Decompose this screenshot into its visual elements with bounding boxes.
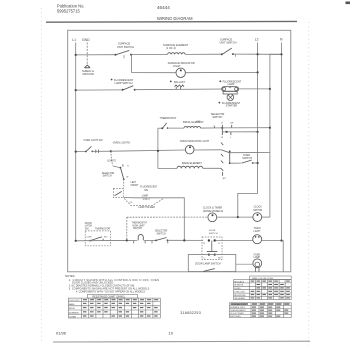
wire bottom line L1 to door box [76, 240, 86, 242]
ground symbol [84, 65, 90, 68]
svg-text:L1: L1 [72, 38, 76, 42]
wire box to thermal bump [85, 239, 137, 241]
wire selector to terminals [167, 239, 203, 241]
junction dot tie [157, 150, 159, 152]
ballast [175, 85, 184, 90]
svg-text:10: 10 [169, 330, 174, 335]
svg-text:BROIL ELEMENT: BROIL ELEMENT [183, 120, 204, 124]
svg-text:SWITCH: SWITCH [213, 116, 223, 119]
header rule [46, 20, 297, 23]
clock motor [253, 213, 262, 222]
broil element coil [184, 126, 201, 128]
oven light label [254, 227, 262, 233]
surface element coil [168, 53, 186, 55]
left table header cell [87, 294, 137, 298]
svg-text:SWITCH: SWITCH [157, 233, 166, 235]
svg-text:SWITCH: SWITCH [209, 233, 218, 235]
right lower table labels [230, 303, 247, 318]
svg-text:BAKE ELEMENT: BAKE ELEMENT [182, 161, 202, 165]
wire contact to N branch [230, 152, 270, 154]
footer rule [53, 340, 310, 343]
left table cell marks [83, 299, 158, 316]
svg-text:HIGH LIMIT: HIGH LIMIT [132, 225, 145, 227]
selector switch bottom [155, 238, 168, 242]
wire GND stem [86, 43, 88, 66]
svg-text:LIGHT: LIGHT [173, 64, 181, 68]
svg-text:CLOCK TIMER: CLOCK TIMER [230, 313, 244, 315]
svg-text:WIRING DIAGRAM: WIRING DIAGRAM [157, 16, 193, 21]
wire indicator to L2 [185, 71, 257, 73]
thermal limit labels [132, 222, 148, 231]
wire lamp holder vertical [183, 197, 185, 240]
junction dot L1 fluorescent [75, 89, 77, 91]
selector sw label bottom [155, 231, 168, 236]
junction dot L2 top [257, 53, 259, 55]
right lower table header marks [231, 303, 290, 304]
oven lights branch drop [111, 151, 113, 165]
svg-text:GROUND: GROUND [82, 72, 94, 76]
junction dot L1 oven light [75, 151, 77, 153]
fluorescent lamp [222, 86, 239, 91]
svg-text:LAMP: LAMP [228, 83, 235, 86]
wire oven light to N [262, 239, 284, 241]
wire selector to N branch [222, 127, 270, 129]
svg-text:1 OF 2: 1 OF 2 [143, 199, 151, 201]
terminal dots on lamp box [208, 254, 216, 256]
door lamp switch box [188, 255, 236, 272]
junction square selector [226, 131, 228, 133]
oven light [253, 235, 262, 244]
svg-text:UNIT SWITCH: UNIT SWITCH [220, 41, 237, 45]
right upper table labels [234, 280, 246, 300]
svg-text:(SOME MODELS): (SOME MODELS) [203, 210, 223, 213]
fluorescent starter [227, 94, 234, 101]
svg-text:LAMP SWITCH: LAMP SWITCH [115, 81, 133, 85]
svg-text:TERMINAL CODE: TERMINAL CODE [230, 303, 247, 306]
wire plug to junction [92, 150, 111, 152]
wire N branch rail [270, 54, 282, 217]
wire junction to indicator [111, 150, 185, 151]
svg-text:FLUORESCENT: FLUORESCENT [140, 187, 158, 189]
junction dot N bottom [280, 239, 282, 241]
junction dot L1 top [75, 54, 77, 56]
wire switch 2 to L2 [233, 53, 282, 55]
svg-text:THERMOSTAT: THERMOSTAT [132, 222, 148, 225]
svg-text:BAKE: BAKE [69, 303, 75, 306]
svg-text:316852253: 316852253 [180, 311, 201, 315]
svg-text:(1 OF 4): (1 OF 4) [166, 46, 176, 50]
right upper table header cell [250, 276, 292, 280]
wire lamp to N branch [240, 88, 270, 90]
wire top bus L1 to surface switch [76, 54, 116, 56]
oven switch [230, 160, 258, 164]
junction dot lamp holder vertical [183, 239, 185, 241]
wire bake line [158, 167, 177, 169]
junction dot selector upper [221, 127, 223, 129]
door latch switch labels [85, 223, 111, 231]
junction dot L2 drop [237, 216, 239, 218]
thermostat switch [158, 123, 168, 129]
svg-text:SURFACE INDICATOR: SURFACE INDICATOR [168, 61, 195, 65]
schematic frame [68, 30, 291, 271]
svg-text:W: W [126, 177, 128, 179]
junction dot L1 bottom [75, 240, 77, 242]
svg-text:LAMP HOLDER: LAMP HOLDER [138, 206, 155, 209]
wire broil-bake tie [157, 128, 159, 168]
surface element label [163, 43, 189, 50]
svg-text:4. COMPONENTS WITH * DO NOT AP: 4. COMPONENTS WITH * DO NOT APPEAR ON AL… [76, 290, 145, 293]
wire terminals to oven light [216, 239, 253, 241]
rotary switch label [102, 173, 115, 178]
corner scan tick [346, 2, 350, 5]
door switch terminal label [209, 230, 218, 235]
wire selector contact jog [221, 150, 229, 153]
svg-text:CLEAN: CLEAN [69, 316, 76, 319]
wire selector second line [222, 131, 257, 133]
svg-text:GND: GND [82, 38, 90, 42]
fluorescent lamp switch label [111, 78, 134, 85]
wire indicator to selector contact [194, 149, 222, 151]
selector contact ticks lower [222, 128, 231, 135]
right upper table marks [251, 281, 290, 299]
page right perforation mark [308, 22, 310, 346]
wire indicator line left [132, 72, 176, 74]
surface indicator light [176, 68, 185, 77]
wire oven lamp drop [282, 241, 284, 272]
svg-text:L2: L2 [255, 38, 259, 42]
wire bake coil to contact [203, 167, 222, 169]
lights selector switch [113, 164, 129, 180]
wire lamp loop lower [124, 198, 163, 205]
selector tick labels upper [221, 123, 234, 125]
junction dot oven switch L2 [257, 162, 259, 164]
fluorescent lamp label [219, 80, 241, 86]
wire N rail [281, 43, 283, 241]
svg-text:GN-GREEN: GN-GREEN [234, 298, 245, 300]
wire thermostat to broil element [168, 127, 185, 129]
connector plug [96, 150, 99, 153]
oven light switch [85, 146, 93, 152]
wire fluorescent line L1 to switch [76, 89, 123, 91]
junction dot selector L2 [257, 131, 259, 133]
terminal dot left [208, 239, 210, 241]
svg-text:01/96: 01/96 [56, 330, 67, 335]
svg-text:THERMOSTAT: THERMOSTAT [160, 117, 177, 120]
junction dot indicator L2 [257, 71, 259, 73]
svg-text:DOOR LAMP SWITCH: DOOR LAMP SWITCH [195, 262, 221, 265]
clock and timer label [203, 207, 223, 213]
left table row labels [69, 300, 80, 319]
svg-text:LEFT: LEFT [131, 182, 137, 184]
svg-text:COIL VOLT: COIL VOLT [69, 300, 80, 302]
svg-text:W-WHITE: W-WHITE [234, 285, 244, 287]
page left perforation mark [40, 8, 42, 342]
ballast label [170, 81, 186, 85]
left table grid [68, 298, 160, 318]
svg-text:BROIL: BROIL [69, 308, 76, 310]
svg-text:Y-YELLOW: Y-YELLOW [234, 292, 244, 294]
oven switch label [242, 154, 252, 160]
svg-text:SELECTOR: SELECTOR [102, 173, 115, 175]
svg-text:MOTOR: MOTOR [253, 209, 262, 212]
svg-text:THERMOSTAT: THERMOSTAT [95, 227, 111, 230]
svg-text:46444: 46444 [157, 5, 170, 10]
wire lights drop lower [123, 179, 125, 188]
svg-text:LIGHT: LIGHT [254, 230, 262, 233]
svg-text:LATCH: LATCH [85, 225, 93, 228]
surface indicator label [168, 61, 195, 68]
svg-text:OFF: OFF [196, 121, 201, 123]
surface unit switch 1 [115, 50, 133, 58]
junction dot N top [280, 53, 282, 55]
door latch switch box [85, 231, 110, 246]
wire L1 rail [75, 43, 77, 241]
bake element coil [177, 166, 203, 168]
svg-text:SWITCH: SWITCH [133, 228, 142, 230]
oven lamp [253, 259, 262, 272]
svg-text:UNIT SWITCH: UNIT SWITCH [117, 45, 134, 49]
surface unit switch 2 label [220, 37, 237, 44]
surface unit switch 2 [221, 48, 236, 57]
svg-text:R-RED: R-RED [234, 288, 241, 290]
svg-text:SURFACE: SURFACE [69, 311, 79, 314]
wire oven light line L1 to switch [76, 151, 86, 153]
fluorescent lamp switch [122, 86, 136, 91]
lamp switch box labels [131, 182, 158, 201]
oven lamp label [254, 253, 261, 259]
svg-text:SWITCHES: SWITCHES [230, 316, 241, 318]
wire L2 rail [238, 43, 258, 218]
clock motor label [253, 206, 262, 212]
wire motor to N branch [262, 216, 270, 218]
surface unit switch 1 label [117, 42, 134, 49]
svg-text:BK-BLACK: BK-BLACK [234, 280, 245, 283]
svg-text:LAMP: LAMP [142, 194, 149, 197]
selector contact ticks upper [222, 125, 231, 128]
svg-text:OVEN ELEMENT: OVEN ELEMENT [230, 310, 246, 312]
selector tick labels lower [221, 137, 233, 139]
wire bump to selector blade [144, 239, 156, 241]
terminal ticks bottom line [134, 241, 168, 244]
ground label [82, 69, 94, 76]
selector switch label [211, 113, 225, 119]
right lower table grid [229, 303, 291, 318]
junction dot oven lights [110, 150, 112, 152]
thermal limit switch [138, 235, 143, 241]
svg-text:COM: COM [86, 236, 91, 238]
svg-text:NO: NO [218, 257, 221, 259]
svg-text:-OVEN LIGHTS-: -OVEN LIGHTS- [112, 141, 131, 144]
svg-text:NOTES:: NOTES: [65, 274, 75, 278]
svg-text:FRONT: FRONT [131, 185, 140, 187]
wire element to surface switch 2 [185, 53, 221, 55]
header publication text [57, 4, 85, 14]
wire motor to L2 drop [217, 216, 253, 218]
svg-text:BALLAST: BALLAST [174, 81, 185, 84]
svg-text:NO: NO [104, 236, 108, 238]
fluorescent starter label [219, 102, 241, 108]
wire switch to surface element [131, 53, 168, 55]
svg-text:OVEN INDICATOR LIGHT: OVEN INDICATOR LIGHT [180, 140, 210, 143]
svg-text:DOOR: DOOR [209, 230, 216, 232]
junction dot lamp N branch [269, 88, 271, 90]
door switch terminal box [202, 237, 222, 260]
svg-text:LIGHTS: LIGHTS [107, 159, 116, 162]
svg-text:SW.: SW. [85, 228, 90, 230]
right lower table marks [252, 304, 288, 317]
wire clock line [127, 216, 207, 218]
junction dot clock riser [126, 239, 128, 241]
right upper table grid [234, 280, 292, 300]
wire lamp box to vertical [124, 197, 185, 199]
clock and timer motor [208, 213, 217, 222]
svg-text:SURFACE UNIT: SURFACE UNIT [230, 306, 245, 309]
svg-text:OVEN LIGHT SW: OVEN LIGHT SW [84, 139, 104, 142]
svg-text:BR-BROWN: BR-BROWN [234, 295, 246, 297]
junction dot selector N branch [269, 127, 271, 129]
svg-text:5995275715: 5995275715 [57, 9, 80, 14]
selector tick mid [213, 125, 216, 128]
wire box to oven lamp [236, 263, 253, 265]
svg-text:STARTER: STARTER [226, 105, 238, 108]
svg-text:SELECTOR: SELECTOR [155, 231, 168, 233]
selector common bar [229, 150, 231, 164]
fluorescent starter holder [223, 91, 237, 94]
wire broil to selector contact [201, 127, 223, 129]
svg-text:SWITCH: SWITCH [103, 176, 112, 178]
lamp switch box [113, 189, 123, 198]
terminal dot right [214, 239, 216, 241]
wire switch to ballast [135, 88, 240, 91]
wire clock line riser [126, 217, 128, 240]
wire indicator branch drop [131, 55, 133, 73]
selector contact column [221, 143, 223, 176]
svg-text:DOOR: DOOR [85, 223, 92, 225]
svg-text:SWITCH: SWITCH [242, 157, 252, 160]
oven indicator light [185, 145, 194, 154]
lamp holder label [138, 206, 155, 209]
